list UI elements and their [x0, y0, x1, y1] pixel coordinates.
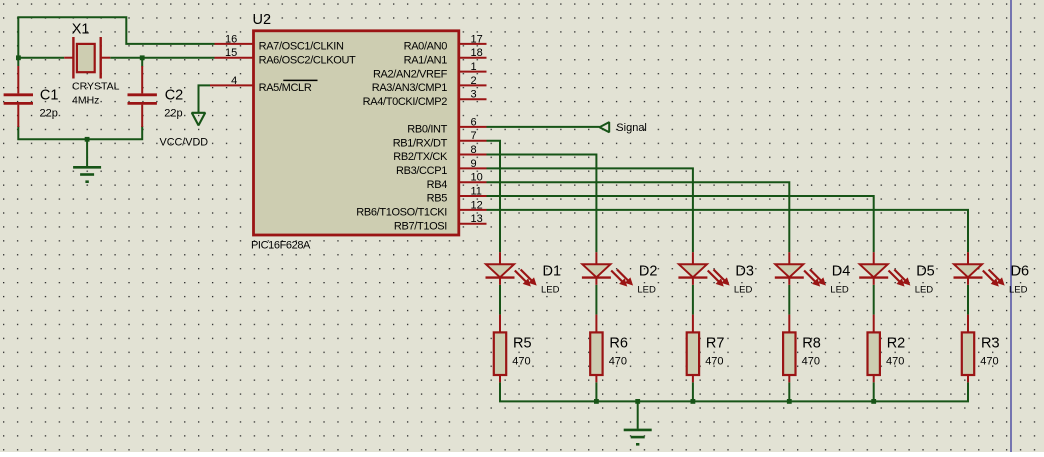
- junction node on rail at x=596.4: [594, 399, 599, 404]
- pin 18 (right): [459, 47, 487, 59]
- wire bottom ground rail: [500, 382, 968, 401]
- svg-text:16: 16: [225, 33, 237, 45]
- wire resistor bottom to rail at x=789.3: [788, 382, 790, 401]
- svg-text:RB6/T1OSO/T1CKI: RB6/T1OSO/T1CKI: [356, 207, 447, 219]
- junction node at C2 / crystal right: [140, 55, 145, 60]
- wire bottom rail of oscillator: C1 to C2: [18, 126, 142, 139]
- wire ground 1 tap: [86, 139, 88, 166]
- svg-text:17: 17: [471, 33, 483, 45]
- svg-text:RA5/MCLR: RA5/MCLR: [259, 82, 312, 94]
- junction node on rail at x=692.9: [691, 399, 696, 404]
- svg-text:LED: LED: [915, 285, 934, 296]
- pin 12 (right): [459, 199, 487, 211]
- svg-text:470: 470: [705, 356, 723, 368]
- svg-text:7: 7: [471, 130, 477, 142]
- wire D3 cathode to R7: [692, 285, 694, 315]
- pin 16 (left): [215, 33, 254, 45]
- svg-text:12: 12: [471, 199, 483, 211]
- svg-text:15: 15: [225, 47, 237, 59]
- resistor R6: [590, 315, 602, 383]
- wire pin 9 RB3 to LED D3 anode: [487, 168, 693, 252]
- svg-text:LED: LED: [541, 285, 560, 296]
- junction node at ground 2 tap: [635, 399, 640, 404]
- svg-text:2: 2: [471, 75, 477, 87]
- wire D4 cathode to R8: [788, 285, 790, 315]
- crystal X1 body: [77, 44, 95, 72]
- svg-text:R8: R8: [802, 335, 821, 351]
- pin 10 (right): [459, 172, 487, 184]
- pin 8 (right): [459, 144, 487, 156]
- junction node at ground tap: [85, 137, 90, 142]
- pin 1 (right): [459, 61, 487, 73]
- pin 6 (right): [459, 116, 487, 128]
- svg-text:LED: LED: [734, 285, 753, 296]
- wire D1 cathode to R5: [499, 285, 501, 315]
- wire resistor bottom to rail at x=692.9: [692, 382, 694, 401]
- MCU U2 body PIC16F628A: [254, 31, 459, 235]
- svg-text:RA0/AN0: RA0/AN0: [404, 41, 448, 53]
- svg-text:RA7/OSC1/CLKIN: RA7/OSC1/CLKIN: [259, 41, 344, 53]
- wire ground 2 tap: [637, 401, 639, 428]
- svg-text:6: 6: [471, 116, 477, 128]
- svg-text:1: 1: [471, 61, 477, 73]
- svg-text:VCC/VDD: VCC/VDD: [160, 137, 209, 149]
- svg-text:13: 13: [471, 213, 483, 225]
- pin 7 (right): [459, 130, 487, 142]
- svg-text:Signal: Signal: [616, 122, 647, 134]
- LED D4: [775, 252, 825, 286]
- resistor R3: [962, 315, 974, 383]
- svg-text:470: 470: [802, 356, 820, 368]
- svg-text:RA1/AN1: RA1/AN1: [404, 54, 448, 66]
- wire pin 11 RB5 to LED D5 anode: [487, 196, 874, 252]
- wire pin 6 RB0 to Signal terminal: [487, 126, 600, 128]
- svg-text:D4: D4: [832, 264, 851, 280]
- svg-text:RA2/AN2/VREF: RA2/AN2/VREF: [373, 68, 448, 80]
- svg-text:PIC16F628A: PIC16F628A: [251, 240, 311, 252]
- svg-text:R5: R5: [513, 335, 532, 351]
- wire pin 8 RB2 to LED D2 anode: [487, 155, 597, 253]
- terminal Signal (left-pointing triangle): [600, 122, 610, 132]
- svg-text:8: 8: [471, 144, 477, 156]
- capacitor C2 pins: [141, 66, 143, 127]
- pin 13 (right): [459, 213, 487, 225]
- svg-text:22p: 22p: [40, 107, 58, 119]
- wire resistor bottom to rail at x=596.4: [595, 382, 597, 401]
- junction node at C1 / crystal left: [16, 55, 21, 60]
- svg-text:R2: R2: [887, 335, 906, 351]
- resistor R5: [494, 315, 506, 383]
- wire D5 cathode to R2: [873, 285, 875, 315]
- wire C2 top stub to junction: [141, 58, 143, 67]
- wire pin 7 RB1 to LED D1 anode: [487, 141, 501, 253]
- svg-text:470: 470: [609, 356, 627, 368]
- svg-text:RB3/CCP1: RB3/CCP1: [396, 165, 447, 177]
- svg-text:RB2/TX/CK: RB2/TX/CK: [393, 151, 448, 163]
- LED D2: [582, 252, 632, 286]
- power terminal VCC/VDD (down arrow): [192, 113, 205, 126]
- svg-text:470: 470: [512, 356, 530, 368]
- LED D3: [678, 252, 728, 286]
- LED D5: [859, 252, 909, 286]
- LED D6: [954, 252, 1004, 286]
- svg-text:D6: D6: [1011, 264, 1030, 280]
- svg-text:D3: D3: [735, 264, 754, 280]
- pin 2 (right): [459, 75, 487, 87]
- pin 3 (right): [459, 89, 487, 101]
- svg-text:470: 470: [980, 356, 998, 368]
- svg-text:LED: LED: [637, 285, 656, 296]
- svg-text:470: 470: [886, 356, 904, 368]
- junction node on rail at x=873.7: [871, 399, 876, 404]
- svg-text:RA3/AN3/CMP1: RA3/AN3/CMP1: [372, 82, 448, 94]
- LED D1: [486, 252, 536, 286]
- svg-text:RB5: RB5: [427, 193, 448, 205]
- svg-text:D5: D5: [916, 264, 935, 280]
- crystal X1 plates: [73, 37, 100, 79]
- resistor R7: [687, 315, 699, 383]
- svg-text:9: 9: [471, 158, 477, 170]
- wire OSC2 net: crystal right to pin 15: [110, 57, 214, 59]
- svg-text:LED: LED: [1009, 285, 1028, 296]
- capacitor C1 plates: [4, 95, 33, 104]
- wire D2 cathode to R6: [595, 285, 597, 315]
- svg-text:4: 4: [231, 75, 237, 87]
- svg-text:18: 18: [471, 47, 483, 59]
- svg-text:U2: U2: [253, 12, 272, 28]
- svg-text:D1: D1: [543, 264, 562, 280]
- wire resistor bottom to rail at x=873.7: [873, 382, 875, 401]
- svg-text:C1: C1: [40, 87, 59, 103]
- svg-text:22p: 22p: [164, 107, 182, 119]
- resistor R2: [868, 315, 880, 383]
- svg-text:RB0/INT: RB0/INT: [407, 124, 447, 136]
- svg-text:CRYSTAL: CRYSTAL: [72, 81, 120, 93]
- svg-text:RB1/RX/DT: RB1/RX/DT: [393, 137, 448, 149]
- wire pin 12 RB6 to LED D6 anode: [487, 210, 969, 252]
- ground symbol GND2: [624, 430, 652, 444]
- wire pin 10 RB4 to LED D4 anode: [487, 182, 790, 252]
- svg-text:RA4/T0CKI/CMP2: RA4/T0CKI/CMP2: [363, 96, 448, 108]
- crystal X1 pins: [64, 57, 110, 59]
- svg-text:D2: D2: [639, 264, 658, 280]
- svg-text:4MHz: 4MHz: [72, 94, 99, 106]
- svg-text:RA6/OSC2/CLKOUT: RA6/OSC2/CLKOUT: [259, 54, 356, 66]
- junction node on rail at x=789.3: [787, 399, 792, 404]
- wire OSC1 net: crystal-left up and over to pin 16: [18, 17, 214, 66]
- svg-text:3: 3: [471, 89, 477, 101]
- wire crystal left pin net: [18, 57, 64, 59]
- pin 15 (left): [215, 47, 254, 59]
- svg-text:11: 11: [471, 186, 482, 198]
- pin 17 (right): [459, 33, 487, 45]
- ground symbol GND1: [73, 167, 101, 181]
- capacitor C2 plates: [128, 95, 157, 104]
- capacitor C1 pins: [17, 66, 19, 127]
- svg-text:10: 10: [471, 172, 483, 184]
- wire D6 cathode to R3: [967, 285, 969, 315]
- svg-text:R6: R6: [609, 335, 628, 351]
- overline for MCLR: [283, 79, 317, 81]
- svg-text:C2: C2: [165, 87, 184, 103]
- pin 11 (right): [459, 186, 487, 198]
- svg-text:X1: X1: [72, 22, 90, 38]
- svg-text:R3: R3: [981, 335, 1000, 351]
- resistor R8: [783, 315, 795, 383]
- pin 9 (right): [459, 158, 487, 170]
- svg-text:RB7/T1OSI: RB7/T1OSI: [394, 220, 447, 232]
- svg-text:R7: R7: [706, 335, 725, 351]
- wire VCC/VDD to pin 4: [199, 85, 211, 112]
- pin 4 (left): [210, 75, 254, 87]
- svg-text:RB4: RB4: [427, 179, 448, 191]
- svg-text:LED: LED: [830, 285, 849, 296]
